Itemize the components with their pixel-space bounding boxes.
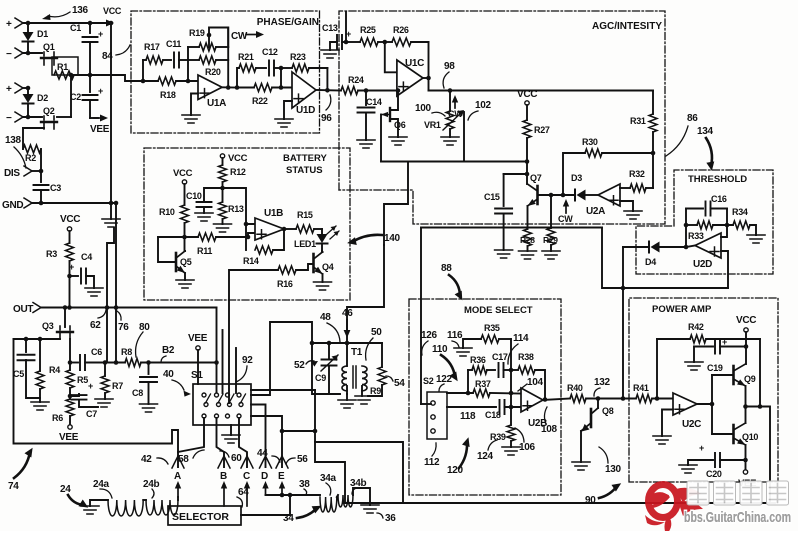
- svg-text:CW: CW: [231, 31, 248, 42]
- svg-text:R26: R26: [393, 25, 409, 35]
- svg-text:C7: C7: [86, 409, 97, 419]
- wire S1 stub a: [222, 330, 224, 393]
- wire U1A plus stub to ground: [191, 94, 198, 116]
- wire U2A plus to ground: [620, 201, 633, 211]
- svg-text:+: +: [88, 381, 93, 391]
- ground (T1 secondary): [355, 396, 373, 404]
- svg-text:76: 76: [118, 322, 129, 333]
- svg-text:DIS: DIS: [4, 168, 20, 179]
- resistor R24: [341, 87, 358, 95]
- wire Q9 emitter to Q10 collector: [745, 386, 747, 423]
- op-amp U1A: [198, 75, 222, 100]
- svg-text:132: 132: [594, 377, 611, 388]
- svg-text:34a: 34a: [320, 473, 337, 484]
- fork B: [218, 456, 230, 468]
- capacitor C5: [25, 339, 27, 352]
- svg-text:U1D: U1D: [296, 105, 315, 116]
- resistor R15: [284, 228, 296, 230]
- block AGC/INTESITY border: [339, 11, 665, 224]
- ground (C13): [321, 50, 339, 58]
- fork C: [241, 456, 253, 468]
- node VEE (R6): [68, 425, 72, 429]
- svg-text:36: 36: [385, 513, 396, 524]
- svg-text:GND: GND: [2, 200, 23, 211]
- ground (U1D): [275, 119, 293, 127]
- svg-text:BATTERY: BATTERY: [283, 153, 327, 164]
- wire R36 left riser: [467, 370, 469, 393]
- wire Q3 source to divider: [69, 339, 71, 363]
- svg-text:52: 52: [294, 360, 305, 371]
- svg-text:112: 112: [424, 457, 440, 468]
- svg-text:Q10: Q10: [742, 432, 758, 442]
- resistor R21: [237, 68, 239, 88]
- svg-text:+: +: [722, 337, 727, 347]
- transistor Q2: [23, 116, 42, 118]
- resistor R3: [69, 231, 71, 243]
- svg-text:24b: 24b: [143, 479, 160, 490]
- transformer T1 core: [353, 366, 356, 388]
- svg-text:138: 138: [5, 135, 22, 146]
- svg-text:+: +: [69, 262, 74, 272]
- svg-text:U1A: U1A: [207, 98, 226, 109]
- svg-text:OUT: OUT: [13, 304, 33, 315]
- svg-text:126: 126: [421, 330, 438, 341]
- wire U1D plus stub to ground: [284, 101, 292, 119]
- svg-text:140: 140: [384, 233, 401, 244]
- svg-text:54: 54: [394, 378, 405, 389]
- svg-text:130: 130: [605, 464, 622, 475]
- svg-text:C6: C6: [91, 347, 102, 357]
- wire S1 row1 loop to C9: [251, 322, 340, 395]
- svg-text:48: 48: [320, 312, 331, 323]
- block PHASE/GAIN border: [131, 11, 320, 133]
- svg-text:R16: R16: [277, 279, 293, 289]
- block POWER AMP border: [629, 298, 778, 482]
- svg-text:80: 80: [139, 322, 150, 333]
- wire feedback left riser: [187, 47, 189, 81]
- wire phase input: [143, 80, 158, 82]
- svg-text:74: 74: [8, 481, 19, 492]
- svg-text:C: C: [243, 471, 250, 482]
- ground (S1): [230, 425, 232, 435]
- svg-text:AGC/INTESITY: AGC/INTESITY: [592, 21, 662, 32]
- svg-text:bbs.GuitarChina.com: bbs.GuitarChina.com: [684, 509, 791, 526]
- transistor Q3: [64, 308, 66, 328]
- LED LED1: [321, 229, 323, 234]
- svg-text:R23: R23: [290, 52, 306, 62]
- svg-text:+: +: [699, 443, 704, 453]
- svg-text:R35: R35: [484, 323, 500, 333]
- wire vertical 76: [115, 203, 117, 363]
- svg-text:VCC: VCC: [517, 89, 537, 100]
- resistor R17: [143, 59, 146, 61]
- resistor R36: [468, 369, 472, 371]
- capacitor C1: [89, 23, 91, 33]
- svg-text:POWER AMP: POWER AMP: [652, 304, 712, 315]
- wire Q7 base node: [538, 194, 576, 196]
- capacitor C17: [499, 363, 504, 377]
- svg-text:STATUS: STATUS: [286, 165, 323, 176]
- svg-text:D: D: [261, 471, 268, 482]
- svg-text:R13: R13: [228, 204, 244, 214]
- ground (Q8): [572, 462, 590, 470]
- svg-text:C9: C9: [315, 373, 326, 383]
- svg-text:D3: D3: [571, 173, 582, 183]
- wire divider to U1B minus: [223, 188, 256, 224]
- node VCC (R12): [220, 154, 224, 158]
- svg-text:100: 100: [415, 103, 432, 114]
- ground (R7/C7): [95, 399, 113, 407]
- svg-text:R8: R8: [121, 347, 132, 357]
- wire C12/R23 node: [280, 68, 282, 88]
- ground (Q4): [314, 282, 332, 290]
- LED light arrows: [327, 226, 339, 239]
- capacitor C8: [148, 363, 150, 375]
- svg-text:Q7: Q7: [530, 173, 542, 183]
- svg-text:124: 124: [477, 451, 494, 462]
- node VCC input rail: [24, 22, 105, 24]
- capacitor C13: [345, 12, 347, 42]
- wire R1 to C-rail: [74, 74, 90, 76]
- resistor R27: [526, 105, 528, 120]
- svg-text:B: B: [220, 471, 227, 482]
- wire 46 feed: [347, 245, 384, 343]
- svg-text:Q3: Q3: [42, 321, 54, 331]
- svg-text:R9: R9: [370, 386, 381, 396]
- arrow into C: [246, 488, 248, 506]
- svg-text:D1: D1: [37, 29, 48, 39]
- svg-text:R41: R41: [633, 383, 649, 393]
- svg-text:R3: R3: [46, 249, 57, 259]
- resistor R22: [254, 84, 272, 92]
- fork E: [276, 456, 288, 468]
- capacitor C15: [504, 173, 527, 175]
- wire S1 to B: [217, 418, 225, 467]
- wire AGC control bus: [381, 161, 527, 163]
- svg-text:R38: R38: [518, 352, 534, 362]
- svg-text:58: 58: [178, 454, 189, 465]
- wire U2D minus feed: [721, 225, 727, 237]
- svg-text:U2D: U2D: [693, 259, 712, 270]
- resistor R23: [281, 67, 292, 69]
- svg-text:+: +: [6, 84, 12, 95]
- svg-text:C17: C17: [492, 352, 508, 362]
- resistor R35: [463, 339, 481, 348]
- wire battery sense into S1: [228, 270, 230, 403]
- svg-text:C4: C4: [81, 252, 92, 262]
- capacitor C16: [686, 208, 703, 210]
- op-amp U1C: [397, 60, 423, 96]
- svg-text:−: −: [6, 49, 12, 60]
- svg-text:D4: D4: [645, 257, 656, 267]
- wire Q10 emitter to VEE: [745, 445, 747, 470]
- diode D1: [27, 23, 29, 32]
- op-amp U2C: [673, 393, 697, 415]
- svg-text:U1C: U1C: [405, 58, 424, 69]
- svg-text:R4: R4: [49, 365, 60, 375]
- svg-text:60: 60: [231, 453, 242, 464]
- wire S1 row3 to E: [251, 416, 282, 467]
- ground (C14): [357, 140, 375, 148]
- ground (C15): [495, 250, 513, 258]
- resistor R41: [636, 395, 652, 403]
- wire S1 stub b: [235, 348, 237, 393]
- svg-text:SELECTOR: SELECTOR: [172, 511, 229, 523]
- capacitor C9 (variable): [328, 343, 330, 359]
- wire U1D output / node 96: [316, 89, 341, 92]
- svg-text:106: 106: [519, 442, 536, 453]
- block THRESHOLD border: [636, 170, 773, 274]
- svg-text:R31: R31: [630, 116, 646, 126]
- op-amp U1D: [292, 72, 316, 108]
- resistor R9: [381, 343, 383, 367]
- wire R25/R26 to U1C minus: [385, 42, 397, 72]
- ground (R39): [502, 447, 520, 455]
- wire C16 loop: [685, 209, 687, 248]
- fork A: [172, 456, 184, 468]
- wire U1A output: [222, 86, 237, 88]
- svg-text:−: −: [6, 113, 12, 124]
- ground (C19): [693, 347, 695, 363]
- resistor R31: [652, 91, 654, 115]
- svg-text:CW: CW: [558, 214, 573, 224]
- resistor R2: [22, 128, 24, 149]
- svg-text:R7: R7: [112, 381, 123, 391]
- wire E-bus tie: [282, 430, 315, 432]
- svg-text:42: 42: [141, 454, 152, 465]
- svg-text:84: 84: [102, 51, 113, 62]
- svg-text:Q5: Q5: [180, 257, 192, 267]
- svg-text:THRESHOLD: THRESHOLD: [688, 174, 747, 185]
- wire 34b to ground: [353, 488, 370, 505]
- wire U2B output: [543, 399, 570, 401]
- ground (Q5): [176, 280, 194, 288]
- ground (C8): [140, 404, 158, 412]
- svg-text:R5: R5: [77, 375, 88, 385]
- svg-text:110: 110: [432, 344, 448, 355]
- wire main AGC line: [429, 90, 654, 92]
- capacitor C14: [365, 91, 367, 106]
- selector box: [168, 506, 241, 525]
- svg-text:R2: R2: [25, 153, 36, 163]
- svg-text:C12: C12: [262, 47, 278, 57]
- resistor R10: [184, 184, 186, 205]
- svg-text:92: 92: [242, 355, 253, 366]
- transformer T1 secondary: [362, 366, 367, 391]
- ground (R34): [747, 235, 765, 243]
- wire Q6 gate to AGC bus: [380, 115, 382, 162]
- svg-text:R14: R14: [243, 256, 259, 266]
- resistor R8: [125, 359, 141, 367]
- svg-text:108: 108: [541, 424, 558, 435]
- svg-text:R15: R15: [297, 210, 313, 220]
- svg-text:R33: R33: [688, 231, 704, 241]
- op-amp U1B: [255, 218, 284, 240]
- svg-text:C19: C19: [707, 363, 723, 373]
- svg-text:R24: R24: [348, 75, 364, 85]
- ground (input section): [110, 203, 112, 219]
- svg-text:CW: CW: [448, 109, 463, 119]
- ground (U1A): [182, 115, 200, 123]
- arrow into D: [265, 488, 267, 495]
- resistor R32: [620, 187, 630, 189]
- svg-text:R36: R36: [470, 355, 486, 365]
- svg-text:90: 90: [585, 495, 596, 506]
- svg-text:C18: C18: [485, 410, 501, 420]
- wire R42 to output node: [759, 339, 761, 407]
- ground (36): [361, 505, 379, 513]
- svg-text:R28: R28: [520, 235, 535, 245]
- ground (R29): [542, 251, 560, 259]
- svg-text:C5: C5: [13, 369, 24, 379]
- wire left loop 74: [14, 339, 179, 452]
- svg-text:24: 24: [60, 484, 71, 495]
- svg-text:R32: R32: [629, 169, 645, 179]
- wire into S2: [421, 403, 431, 405]
- wire T1 top bus: [312, 342, 382, 344]
- resistor R16: [230, 269, 278, 271]
- svg-text:Q4: Q4: [322, 262, 334, 272]
- svg-text:38: 38: [299, 479, 310, 490]
- svg-text:C13: C13: [322, 23, 338, 33]
- svg-text:R20: R20: [205, 67, 221, 77]
- ground (top rail termination): [102, 219, 120, 227]
- wire signal to phase/gain input: [90, 75, 143, 81]
- resistor R7: [104, 363, 106, 377]
- svg-text:C10: C10: [186, 191, 202, 201]
- resistor R42: [657, 338, 690, 340]
- ground (R35): [454, 348, 472, 356]
- transformer coil 34a: [320, 497, 337, 512]
- wire VR1 wiper to AGC bus: [463, 112, 465, 162]
- resistor R25: [346, 41, 360, 43]
- ground (R4/C5): [31, 402, 49, 410]
- svg-text:R27: R27: [534, 125, 550, 135]
- svg-text:88: 88: [441, 263, 452, 274]
- svg-text:56: 56: [297, 454, 308, 465]
- resistor R19: [188, 46, 199, 48]
- wire D4 to mode bus: [623, 246, 649, 248]
- wire DE bus: [266, 494, 321, 496]
- wire AGC to mode select: [421, 227, 602, 229]
- diode D2: [24, 87, 28, 89]
- svg-text:Q8: Q8: [602, 406, 614, 416]
- resistor R11: [158, 236, 198, 238]
- arrow into A: [177, 488, 179, 497]
- svg-text:R19: R19: [189, 28, 205, 38]
- wire stair to S2 feed: [384, 162, 408, 246]
- trimmer loop (R19): [209, 28, 228, 48]
- capacitor C18: [447, 406, 496, 408]
- svg-text:VR1: VR1: [424, 120, 441, 130]
- wire OUT drop into S1: [216, 308, 218, 393]
- potentiometer VR1: [449, 91, 451, 112]
- resistor R28: [524, 229, 532, 246]
- svg-text:A: A: [174, 471, 181, 482]
- svg-text:C1: C1: [70, 23, 81, 33]
- svg-text:114: 114: [513, 333, 529, 344]
- svg-text:R11: R11: [197, 246, 212, 256]
- capacitor C2: [89, 75, 91, 92]
- wire S1 to A: [178, 418, 204, 467]
- svg-text:116: 116: [447, 330, 463, 341]
- svg-text:S2: S2: [423, 376, 434, 386]
- svg-text:C20: C20: [706, 469, 722, 479]
- svg-text:R39: R39: [490, 432, 506, 442]
- svg-text:R21: R21: [238, 52, 254, 62]
- svg-text:Q1: Q1: [43, 42, 55, 52]
- svg-text:24a: 24a: [93, 479, 110, 490]
- wire ground-rail jog down: [107, 228, 114, 363]
- capacitor C12: [269, 61, 274, 76]
- resistor R30: [563, 153, 585, 195]
- svg-text:R40: R40: [567, 383, 583, 393]
- svg-text:+: +: [98, 29, 103, 39]
- svg-text:R12: R12: [230, 167, 246, 177]
- resistor R20: [188, 59, 199, 61]
- svg-text:C14: C14: [366, 97, 382, 107]
- arrow into E: [281, 488, 283, 495]
- switch S1 contacts: [202, 393, 206, 397]
- svg-text:T1: T1: [351, 347, 363, 358]
- wire U1C output: [423, 77, 429, 79]
- wire S1 row1 to bottom net: [251, 389, 315, 391]
- transistor Q1: [23, 52, 42, 54]
- wire U1B plus stub: [248, 233, 255, 237]
- watermark characters: [687, 481, 789, 505]
- svg-text:E: E: [278, 471, 285, 482]
- svg-text:136: 136: [72, 5, 89, 16]
- svg-text:U2C: U2C: [682, 419, 701, 430]
- op-amp U2B: [521, 388, 543, 412]
- svg-text:U1B: U1B: [264, 208, 283, 219]
- svg-text:86: 86: [687, 113, 698, 124]
- svg-text:U2A: U2A: [586, 206, 605, 217]
- ground (T1 primary): [346, 394, 348, 400]
- svg-text:VCC: VCC: [60, 214, 80, 225]
- svg-text:Q6: Q6: [394, 120, 406, 130]
- svg-text:R18: R18: [160, 90, 176, 100]
- svg-text:62: 62: [90, 320, 101, 331]
- resistor R5: [68, 360, 73, 365]
- ground (U2A): [624, 211, 642, 219]
- ground (VR1): [441, 137, 459, 145]
- resistor R14: [255, 246, 273, 254]
- label CW (Q7): [565, 206, 567, 213]
- resistor R1 (boxed): [52, 57, 78, 75]
- op-amp U2A: [598, 184, 620, 206]
- transformer coil 24b: [146, 500, 178, 515]
- svg-text:D2: D2: [37, 93, 48, 103]
- watermark logo: [645, 485, 703, 536]
- svg-text:B2: B2: [162, 345, 175, 356]
- capacitor C3: [40, 171, 42, 182]
- svg-text:C11: C11: [166, 39, 181, 49]
- svg-text:34: 34: [283, 513, 294, 524]
- svg-text:+: +: [98, 86, 103, 96]
- svg-text:50: 50: [371, 327, 382, 338]
- svg-text:96: 96: [321, 113, 332, 124]
- svg-text:134: 134: [697, 126, 714, 137]
- ground (C20): [688, 460, 695, 465]
- block BATTERY STATUS border: [144, 148, 350, 300]
- svg-text:VCC: VCC: [103, 6, 122, 16]
- svg-text:118: 118: [460, 411, 476, 422]
- svg-text:VEE: VEE: [59, 432, 79, 443]
- transformer coil 34b: [338, 495, 353, 507]
- transformer coil 24a: [108, 500, 143, 516]
- svg-text:R17: R17: [144, 42, 160, 52]
